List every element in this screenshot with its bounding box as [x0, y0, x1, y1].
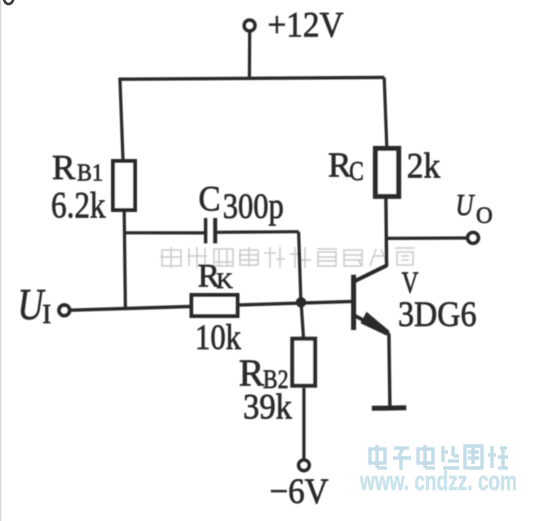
watermark 杭州将睿科技有限公司 (gray CJK, drawn as glyph blocks): [160, 247, 415, 268]
svg-text:I: I: [42, 299, 51, 329]
wire emitter drop: [389, 334, 390, 407]
wire cap branch down to junction: [299, 232, 301, 302]
svg-text:O: O: [476, 203, 493, 228]
svg-text:www. cndzz. com: www. cndzz. com: [359, 466, 517, 496]
output terminal UO: [468, 232, 479, 243]
wire collector lower: [384, 199, 388, 267]
transistor V emitter arrow: [361, 312, 390, 336]
svg-text:300p: 300p: [223, 186, 284, 226]
svg-text:6.2k: 6.2k: [51, 186, 106, 227]
capacitor C plate right: [213, 218, 217, 243]
svg-text:R: R: [52, 148, 76, 187]
svg-text:B1: B1: [77, 160, 103, 186]
svg-text:+12V: +12V: [268, 4, 344, 44]
wire junction to RB2: [301, 302, 303, 338]
input terminal UI: [59, 305, 70, 316]
svg-text:C: C: [349, 156, 364, 186]
resistor RB2: [292, 339, 315, 386]
svg-text:2k: 2k: [407, 145, 441, 185]
ground: [372, 405, 407, 411]
wire left branch upper: [120, 78, 123, 160]
wire left branch lower: [124, 211, 125, 310]
svg-text:39k: 39k: [243, 386, 292, 426]
watermark logo 电子电路图站 (cyan CJK, drawn as glyph blocks): [370, 445, 508, 470]
wire cap branch right: [217, 230, 299, 234]
svg-text:−6V: −6V: [270, 471, 329, 511]
resistor RB1: [113, 161, 135, 210]
node junction: [296, 297, 306, 307]
wire output branch: [386, 236, 466, 240]
wire RB2 to -6V: [302, 388, 305, 459]
wire +12V drop: [248, 32, 252, 79]
wire main input line: [71, 301, 354, 310]
supply terminal -6V: [299, 460, 310, 471]
resistor RK: [192, 295, 238, 316]
svg-text:C: C: [199, 178, 221, 218]
wire collector riser: [384, 78, 387, 148]
power terminal +12V: [244, 20, 255, 31]
capacitor C plate left: [204, 218, 207, 243]
transistor V collector diagonal: [354, 265, 387, 281]
scan artifact: faint left edge line: [0, 0, 2, 521]
svg-text:K: K: [216, 268, 233, 293]
transistor V base bar: [351, 275, 356, 330]
transistor V emitter diagonal: [355, 316, 390, 334]
corner artifact glyph: [4, 0, 13, 4]
svg-text:U: U: [456, 187, 476, 222]
svg-text:10k: 10k: [195, 317, 241, 357]
wire top rail: [119, 77, 385, 79]
resistor RC: [375, 148, 398, 196]
wire cap branch left: [124, 231, 204, 234]
svg-text:3DG6: 3DG6: [398, 294, 477, 334]
